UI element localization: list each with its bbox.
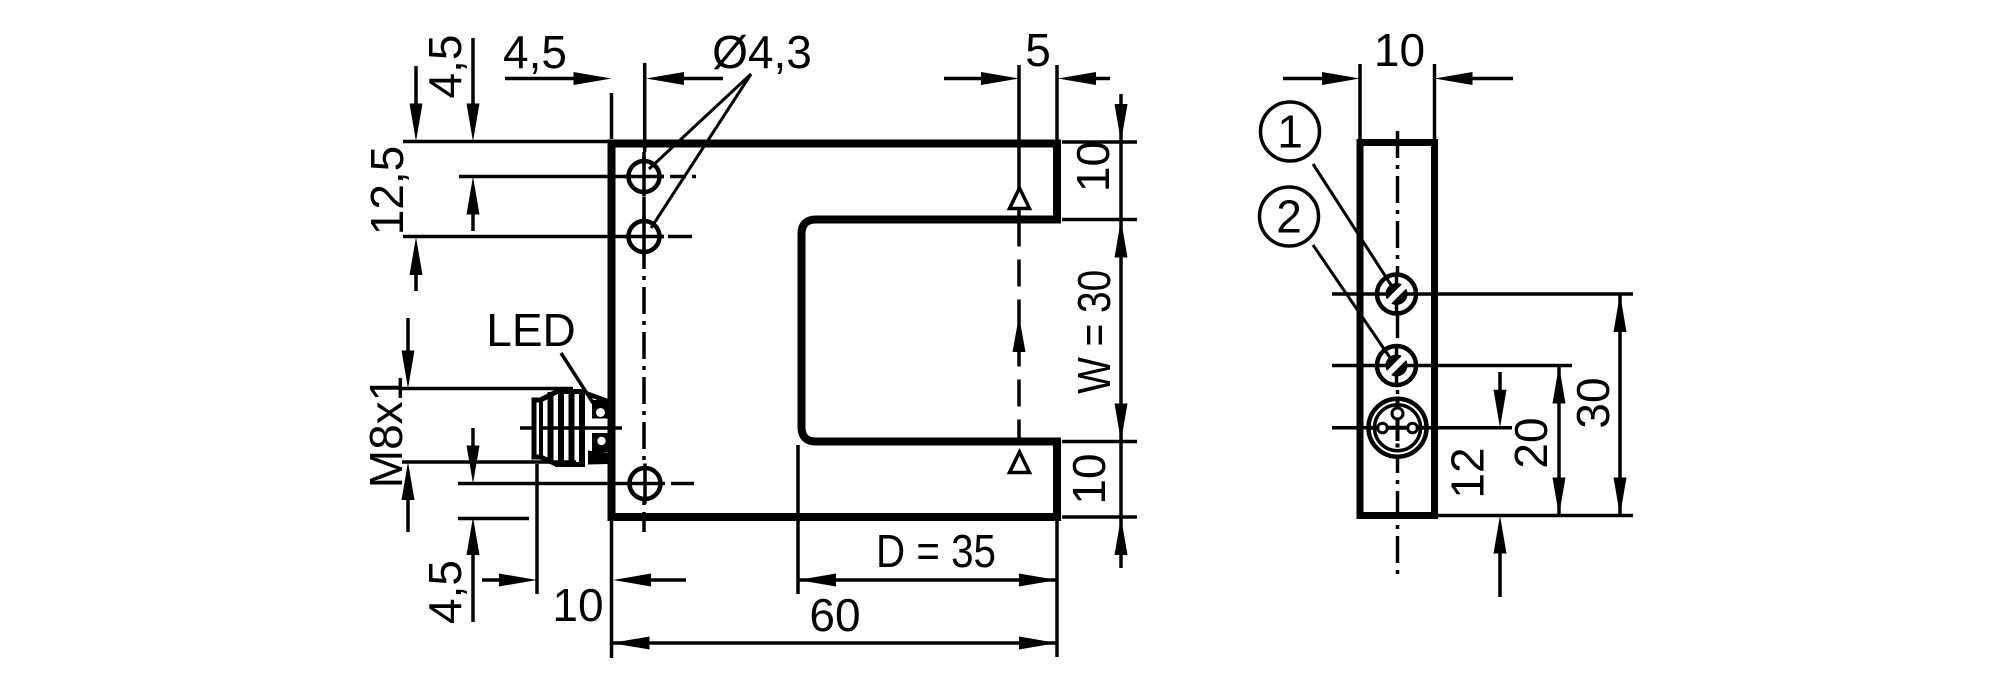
svg-text:1: 1: [1277, 106, 1303, 158]
svg-text:10: 10: [1063, 453, 1115, 504]
svg-text:M8x1: M8x1: [360, 376, 412, 488]
extension line M8 bottom: [402, 460, 576, 464]
dimension 5: right tail: [1096, 77, 1110, 81]
connector barrel top edge: [555, 389, 585, 394]
LED 1 cross horizontal: [1377, 292, 1416, 296]
dimension 10 bottom-left: left arrow: [499, 574, 537, 587]
dimension 5: left tail: [944, 77, 981, 81]
connector face horizontal line: [1370, 426, 1425, 430]
leader to hole H2: [651, 74, 751, 228]
dimension 5: left arrow: [981, 72, 1019, 85]
extension line side bottom: [1438, 514, 1633, 518]
svg-text:4,5: 4,5: [419, 560, 471, 624]
dimension 4,5 horizontal top: right tail: [684, 77, 723, 81]
extension line body right edge down: [1055, 520, 1059, 657]
arrow to slot bottom: [1115, 404, 1128, 442]
dimension 60 right arrow: [1019, 637, 1057, 650]
dimension M8x1: line below: [406, 500, 410, 532]
extension line hole2 left: [403, 235, 664, 239]
connector flange bottom wedge: [588, 451, 610, 465]
hole H1 cross horizontal: [624, 175, 664, 179]
dimension 4,5 horizontal top: right arrow: [646, 72, 684, 85]
dimension 10 bottom-left: right arrow: [613, 574, 651, 587]
extension line LED2: [1332, 364, 1572, 368]
dimension 4,5 vertical: top arrow: [467, 104, 480, 142]
connector pin left: [1378, 423, 1388, 433]
dimension 4,5 horizontal top: left arrow: [574, 72, 612, 85]
beam direction arrow: [1013, 316, 1026, 352]
side view body: [1360, 143, 1435, 516]
dimension 4,5 bottom: line above: [471, 428, 475, 446]
hole H1 cross vertical: [642, 157, 646, 197]
dimension 4,5 vertical: bottom arrow: [467, 177, 480, 215]
leader to hole H1: [649, 74, 751, 169]
LED 2 cross vertical: [1395, 346, 1399, 385]
extension line hole centerline up: [643, 63, 647, 152]
arrow to bottom edge: [1115, 517, 1128, 555]
connector knurl bar 1: [548, 392, 554, 463]
svg-text:10: 10: [552, 579, 603, 631]
LED 1 outer: [1377, 275, 1416, 314]
hole H2 cross vertical: [642, 217, 646, 257]
LED window: [596, 408, 605, 417]
connector flange top slant: [588, 392, 610, 405]
svg-text:4,5: 4,5: [419, 35, 471, 99]
extension line body right edge up: [1055, 65, 1059, 141]
dimension 10 bottom-left: right tail: [651, 578, 686, 582]
beam marker triangle top: [1010, 188, 1030, 209]
dimension M8x1: line above: [406, 318, 410, 351]
connector knurl bar 2: [558, 390, 564, 466]
callout leader 2: [1313, 245, 1393, 362]
dimension 10 side: left arrow: [1322, 72, 1360, 85]
beam marker triangle bottom: [1010, 452, 1030, 473]
extension line hole1 left: [459, 175, 664, 179]
connector nut bottom bevel: [540, 457, 558, 465]
centerline through mounting holes: [642, 152, 646, 532]
LED 1 inner: [1386, 283, 1408, 305]
svg-text:W = 30: W = 30: [1068, 270, 1120, 394]
svg-text:60: 60: [809, 589, 860, 641]
callout circle 2: [1260, 187, 1319, 246]
LED 2 cross horizontal: [1377, 364, 1416, 368]
callout leader 1: [1313, 164, 1393, 288]
connector knurl bar 3: [569, 390, 575, 467]
svg-text:10: 10: [1374, 24, 1425, 76]
svg-text:12: 12: [1442, 447, 1494, 498]
connector flange top block: [592, 400, 610, 419]
side view centerline: [1396, 131, 1400, 578]
svg-text:LED: LED: [486, 304, 575, 356]
dimension 10 side: right arrow: [1435, 72, 1473, 85]
connector nut top bevel: [540, 392, 558, 401]
dimension D=35 left arrow: [798, 574, 836, 587]
connector face vertical line: [1396, 397, 1400, 442]
dimension 30 top arrow: [1614, 294, 1627, 332]
LED 2 outer: [1377, 346, 1416, 385]
extension line bottom edge left: [458, 517, 529, 521]
dimension 4,5 vertical (hole1 from top): line above: [471, 38, 475, 104]
dimension 60 left arrow: [612, 637, 650, 650]
connector barrel bottom edge: [555, 462, 585, 467]
LED 2 inner: [1386, 355, 1408, 377]
dimension 4,5 bottom: bottom arrow: [467, 517, 480, 555]
arrow to top edge: [1115, 104, 1128, 142]
connector left face line: [539, 400, 543, 457]
dimension 20 bottom arrow: [1553, 478, 1566, 516]
dimension 4,5 bottom: top arrow: [467, 446, 480, 484]
dimension 20 line: [1557, 366, 1561, 516]
hole H1: [629, 161, 660, 192]
connector M8 nut left face: [534, 400, 541, 457]
svg-text:2: 2: [1276, 191, 1302, 243]
dimension D=35 right arrow: [1019, 574, 1057, 587]
callout circle 1: [1261, 102, 1320, 161]
dimension M8x1: bottom arrow: [402, 462, 415, 500]
dimension 4,5 vertical: line below: [471, 214, 475, 231]
extension line connector axis: [1332, 426, 1512, 430]
dimension M8x1: top arrow: [402, 351, 415, 389]
connector flange bottom block: [592, 433, 610, 453]
connector pin right: [1408, 423, 1418, 433]
dimension 12,5: line above: [414, 66, 418, 104]
extension side left up: [1358, 64, 1362, 139]
extension side right up: [1433, 64, 1437, 139]
dimension 12: line below: [1498, 553, 1502, 597]
dimension 5: right arrow: [1058, 72, 1096, 85]
connector center line: [520, 426, 622, 430]
dimension 4,5 horizontal top: left tail: [505, 77, 574, 81]
connector face outer circle: [1369, 399, 1427, 457]
connector pin top: [1392, 408, 1403, 419]
hole H3 cross vertical: [643, 464, 647, 504]
LED 1 slot: [1389, 286, 1405, 302]
dimension 12,5: top arrow: [410, 104, 423, 142]
sensor body outline (front view, fork shape): [612, 144, 1058, 518]
svg-text:20: 20: [1505, 417, 1557, 468]
dimension 10 side: right tail: [1473, 77, 1514, 81]
arrow to slot top: [1115, 220, 1128, 258]
dimension 20 top arrow: [1553, 366, 1566, 404]
LED 2 slot: [1389, 358, 1405, 374]
svg-text:D = 35: D = 35: [876, 525, 996, 577]
hole H2 dash right: [668, 235, 692, 239]
LED 1 cross vertical: [1395, 275, 1399, 314]
extension line slot end down: [796, 445, 800, 594]
dimension 10 bottom-left: left tail: [482, 578, 500, 582]
dimension 12,5: bottom arrow: [410, 237, 423, 275]
extension line beam axis up: [1017, 65, 1021, 219]
beam axis dashed line: [1017, 220, 1021, 442]
hole H3 extension left: [458, 482, 665, 486]
dimension 12: top arrow: [1494, 390, 1507, 428]
svg-text:5: 5: [1025, 24, 1051, 76]
extension line LED1: [1332, 292, 1633, 296]
extension line M8 top: [402, 387, 573, 391]
svg-text:30: 30: [1567, 377, 1619, 428]
LED leader line: [561, 353, 597, 409]
extension line slot bottom right: [1062, 440, 1137, 444]
extension line top edge right: [1062, 140, 1137, 144]
hole H1 dash right: [670, 175, 686, 179]
extension line top edge left: [403, 140, 611, 144]
extension line connector face down: [535, 464, 539, 594]
svg-text:12,5: 12,5: [361, 146, 413, 236]
dimension 30 bottom arrow: [1614, 478, 1627, 516]
dimension 12,5: line below: [414, 275, 418, 291]
svg-text:Ø4,3: Ø4,3: [712, 26, 812, 78]
hole H3: [630, 468, 661, 499]
extension line slot top right: [1062, 218, 1137, 222]
right dimension chain line: [1119, 94, 1123, 568]
dimension D=35 line: [798, 578, 1057, 582]
hole H2 cross horizontal: [624, 235, 664, 239]
extension line body left edge up: [610, 93, 614, 139]
dimension 4,5 bottom: line below: [471, 555, 475, 622]
svg-text:4,5: 4,5: [503, 26, 567, 78]
dimension 12: line above: [1498, 372, 1502, 390]
hole H3 dash right: [671, 482, 694, 486]
connector knurl bar 4: [579, 390, 585, 467]
extension line body left edge down: [610, 520, 614, 658]
dimension 12: bottom arrow: [1494, 516, 1507, 554]
dimension 30 line: [1618, 294, 1622, 516]
hole H2: [629, 221, 660, 252]
dimension 10 side: left tail: [1283, 77, 1322, 81]
connector face inner circle: [1375, 405, 1421, 451]
dimension 60 line: [612, 641, 1058, 645]
extension line bottom edge right: [1062, 515, 1137, 519]
centerline dot below connector center: [1396, 444, 1400, 448]
svg-text:10: 10: [1067, 141, 1119, 192]
hole H1 dot right: [692, 175, 696, 179]
connector flange bottom window: [597, 437, 605, 445]
